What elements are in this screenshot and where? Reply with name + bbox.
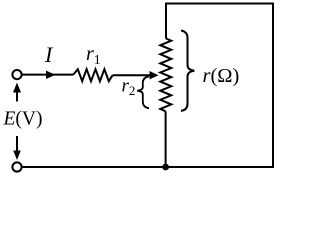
wire bottom rail [22, 166, 275, 168]
junction dot [162, 164, 169, 171]
svg-text:r2: r2 [122, 76, 136, 99]
rheostat r2 vertical zigzag [160, 39, 171, 112]
svg-text:r(Ω): r(Ω) [203, 65, 240, 87]
wiper arrow head into rheostat [150, 71, 159, 79]
wire top horizontal from terminal to resistor r1 [22, 74, 74, 76]
terminal node bottom (open circle) [12, 162, 21, 171]
svg-text:I: I [44, 42, 54, 67]
wire from r1 to wiper arrow [113, 74, 152, 76]
svg-text:E(V): E(V) [3, 109, 43, 130]
svg-text:r1: r1 [86, 43, 101, 68]
wire rectangle right edge [272, 3, 274, 168]
brace for r2 (left-pointing curly) [137, 76, 149, 108]
source down arrow [16, 136, 18, 151]
resistor R1 zigzag [73, 69, 112, 81]
brace for r(ohm) (right-pointing curly) [181, 31, 194, 112]
wire from r2 bottom to bottom rail [165, 111, 167, 167]
current arrow I head [46, 71, 56, 79]
wire rectangle top edge [165, 3, 273, 5]
terminal node top (open circle) [12, 70, 21, 79]
source up arrow [16, 92, 18, 102]
wire rectangle top-left vertical into r2 [165, 4, 167, 39]
